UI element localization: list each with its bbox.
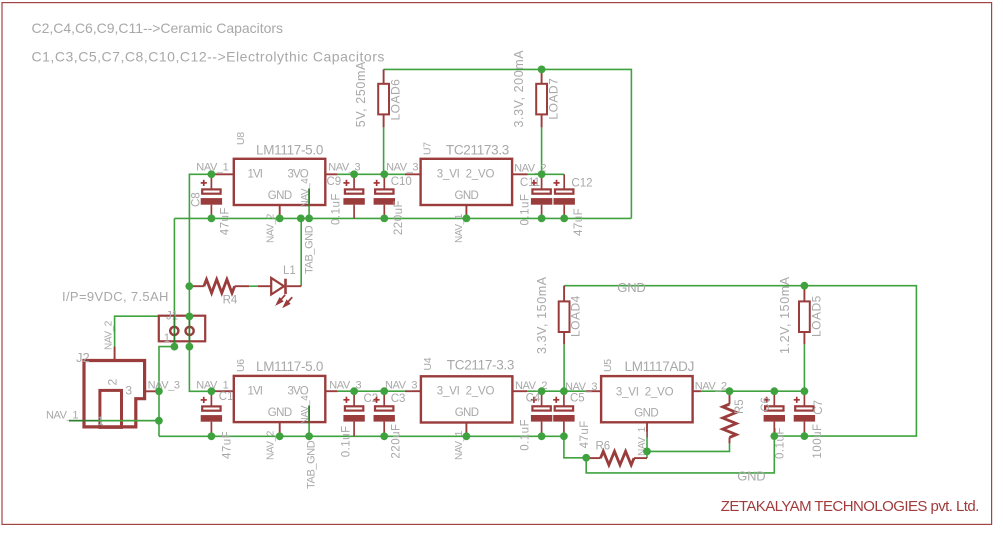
regulator U5 LM1117ADJ box (601, 376, 693, 422)
junction C3 bottom on bus (380, 432, 388, 440)
junction U8 GND on bus (276, 215, 284, 223)
svg-text:47uF: 47uF (579, 420, 591, 448)
junction C9 top (350, 170, 358, 178)
U8 pin 4 TAB segment inside box (308, 189, 310, 207)
svg-text:C9: C9 (327, 176, 342, 188)
svg-text:C6: C6 (760, 397, 772, 412)
capacitor C5 47uF (553, 391, 574, 436)
R4 right lead (235, 285, 250, 287)
LOAD6 bottom lead (383, 114, 385, 127)
junction U4 GND on bus (463, 432, 471, 440)
wire top load GND loop (384, 69, 632, 218)
svg-text:U5: U5 (602, 359, 614, 372)
junction LOAD5 top (801, 282, 809, 290)
wire between R4 and L1 (249, 285, 258, 287)
U8 output pin stub (325, 173, 337, 175)
junction C10 bottom on bus (380, 215, 388, 223)
LED L1 cathode lead (287, 285, 301, 287)
svg-text:C8: C8 (191, 192, 203, 207)
junction C6 top (770, 387, 778, 395)
junction C7 / LOAD5 (801, 387, 809, 395)
junction U7 out / C11 / LOAD7 (538, 170, 546, 178)
svg-text:L1: L1 (283, 265, 296, 277)
svg-text:0.1uF: 0.1uF (520, 419, 532, 451)
J2 inner contact rectangle (100, 390, 122, 427)
svg-text:C11: C11 (520, 177, 540, 189)
junction LOAD7 top (538, 66, 546, 74)
svg-text:47uF: 47uF (573, 208, 585, 236)
svg-text:C1: C1 (219, 391, 234, 403)
wire LOAD5 bottom to node (803, 344, 805, 391)
wire NAV_4 from U6 pin 4 to bottom bus (308, 406, 310, 437)
wire NAV_1 from J1 pin down to U6 input node (189, 347, 211, 392)
J2 pin 2 red stub (114, 347, 116, 362)
R6 left lead (586, 457, 600, 459)
LOAD4 bottom lead (563, 332, 565, 344)
svg-text:3_VI 2_VO: 3_VI 2_VO (437, 386, 495, 398)
svg-text:NAV_2: NAV_2 (104, 320, 115, 350)
junction C6 bottom (770, 432, 778, 440)
svg-text:LOAD6: LOAD6 (389, 79, 403, 121)
wire TAB_GND from LED cathode up to bus (300, 218, 302, 286)
U5 output pin stub (693, 390, 701, 392)
svg-text:J2: J2 (76, 350, 90, 365)
LOAD5 top lead (803, 286, 805, 302)
svg-text:LOAD4: LOAD4 (569, 295, 583, 337)
capacitor C10 220uF (374, 174, 395, 218)
junction C10 / LOAD6 (380, 170, 388, 178)
svg-text:LM1117ADJ: LM1117ADJ (625, 359, 695, 374)
svg-text:GND: GND (268, 407, 292, 419)
wire LOAD4 bottom to node (563, 344, 565, 391)
wire junction jog to R6 right lead (646, 451, 648, 458)
capacitor C3 220uF (374, 391, 395, 436)
R6 right lead (634, 457, 647, 459)
svg-text:GND: GND (617, 280, 645, 295)
capacitor C6 0.1uF (764, 391, 785, 436)
wire GND loop from LOAD4 top around right side (564, 286, 916, 436)
junction R5 top (726, 387, 734, 395)
junction C5 bottom on bus (560, 432, 568, 440)
wire from C5 bottom down to R6 (564, 436, 586, 458)
svg-text:C10: C10 (391, 176, 412, 188)
svg-text:J1: J1 (166, 311, 178, 323)
U4 input pin stub (405, 390, 421, 392)
U8 GND pin stub (279, 205, 281, 218)
J2 pin 3 stub (145, 390, 159, 392)
R5 bottom lead (729, 437, 731, 443)
wire NAV_1 over J2 symbol (98, 420, 159, 422)
junction R4 tap on NAV_1 (185, 282, 193, 290)
R5 top lead (729, 391, 731, 404)
junction R6 left / GND elbow (582, 454, 590, 462)
svg-text:LM1117-5.0: LM1117-5.0 (256, 143, 323, 158)
resistor R6 zigzag (601, 451, 635, 465)
wire bottom GND bus (159, 435, 564, 437)
wire NAV_2 J2 pin 2 to J1 (115, 316, 159, 360)
U7 output pin stub (512, 173, 527, 175)
junction C4 top (538, 387, 546, 395)
capacitor C1 47uF (201, 391, 222, 436)
junction NAV_1 wire end (155, 417, 163, 425)
wire NAV_3 U6 output to U4 input (337, 390, 405, 392)
op-amp/regulator U8 LM1117-5.0 box (234, 159, 325, 205)
svg-text:NAV_3: NAV_3 (565, 381, 597, 393)
svg-text:TC2117-3.3: TC2117-3.3 (447, 358, 514, 373)
svg-text:NAV_3: NAV_3 (386, 162, 418, 174)
svg-text:NAV_3: NAV_3 (385, 380, 417, 392)
connector J1 box (159, 316, 205, 342)
junction C12 bottom on bus (560, 215, 568, 223)
svg-text:2: 2 (106, 379, 120, 386)
capacitor C2 0.1uF (343, 391, 364, 436)
junction C8 bottom on bus (208, 215, 216, 223)
svg-text:47uF: 47uF (222, 431, 234, 459)
LOAD5 bottom lead (803, 332, 805, 344)
junction U6 GND on bus (276, 432, 284, 440)
svg-text:NAV_2: NAV_2 (266, 430, 277, 460)
LED L1 anode lead (258, 285, 271, 287)
svg-text:ZETAKALYAM TECHNOLOGIES pvt. L: ZETAKALYAM TECHNOLOGIES pvt. Ltd. (721, 498, 979, 515)
U7 input pin stub (405, 173, 421, 175)
resistor R5 zigzag (723, 404, 737, 437)
LOAD7 bottom lead (541, 114, 543, 127)
svg-text:3: 3 (125, 384, 132, 398)
svg-text:GND: GND (268, 190, 292, 202)
junction NAV_4 on bus (305, 215, 313, 223)
wire GND elbow left of J1 down to bottom bus (159, 347, 174, 437)
svg-text:1VI: 1VI (248, 386, 263, 398)
svg-text:3_VI 2_VO: 3_VI 2_VO (437, 169, 495, 181)
U7 GND pin stub (465, 205, 467, 218)
capacitor C11 0.1uF (531, 174, 552, 218)
LED L1 cathode bar (284, 279, 287, 294)
svg-text:1.2V, 150mA: 1.2V, 150mA (778, 276, 792, 354)
svg-text:C1,C3,C5,C7,C8,C10,C12-->Elect: C1,C3,C5,C7,C8,C10,C12-->Electrolythic C… (32, 49, 385, 65)
svg-text:R6: R6 (596, 441, 611, 453)
svg-text:5V, 250mA: 5V, 250mA (354, 61, 368, 127)
svg-text:0.1uF: 0.1uF (341, 425, 353, 457)
wire GND elbow from R6 to C6 bottom (586, 436, 774, 473)
svg-text:U7: U7 (422, 142, 434, 155)
capacitor C4 0.1uF (531, 391, 552, 436)
U4 output pin stub (512, 390, 527, 392)
svg-text:GND: GND (455, 407, 479, 419)
svg-text:0.1uF: 0.1uF (519, 194, 531, 226)
wire U5 GND pin to junction (646, 438, 648, 452)
junction C5 / LOAD4 (560, 387, 568, 395)
svg-text:NAV_2: NAV_2 (695, 380, 727, 392)
svg-text:I/P=9VDC, 7.5AH: I/P=9VDC, 7.5AH (62, 289, 169, 304)
wire NAV_1 from U8 input down to J1 pin 2 (189, 174, 211, 346)
resistor LOAD7 box (536, 84, 547, 115)
capacitor C12 47uF (554, 174, 575, 218)
junction U6 input / C1 (208, 387, 216, 395)
wire LOAD7 bottom to NAV_2 (541, 127, 543, 174)
svg-text:LM1117-5.0: LM1117-5.0 (256, 359, 323, 374)
J1 pin circle 2 (186, 327, 194, 335)
svg-text:1VI: 1VI (248, 169, 263, 181)
junction C1 bottom on bus (208, 432, 216, 440)
regulator U6 LM1117-5.0 box (234, 376, 325, 422)
svg-text:NAV_3: NAV_3 (148, 380, 180, 392)
svg-text:C4: C4 (526, 393, 541, 405)
resistor LOAD5 box (799, 301, 810, 332)
capacitor C8 47uF electrolytic (201, 174, 222, 218)
svg-text:LOAD7: LOAD7 (546, 78, 560, 120)
J2 pin 1 pin line (69, 420, 98, 422)
junction below J1 pin 2 (186, 343, 194, 351)
svg-text:NAV_2: NAV_2 (266, 213, 277, 243)
U4 GND pin stub (465, 423, 467, 437)
junction TAB_GND on bus (297, 215, 305, 223)
J1 pin 2 vertical pin line (188, 316, 190, 347)
wire NAV_3 U8 output to U7 input (337, 173, 405, 175)
svg-text:1: 1 (164, 333, 170, 345)
svg-text:220uF: 220uF (390, 423, 402, 458)
junction C2 top (350, 387, 358, 395)
svg-text:GND: GND (634, 407, 658, 419)
svg-text:U8: U8 (235, 132, 247, 145)
resistor R4 zigzag (204, 279, 235, 293)
LED L1 emission arrows (277, 295, 292, 306)
svg-text:0.1uF: 0.1uF (775, 427, 787, 459)
junction C3 top (380, 387, 388, 395)
svg-text:100uF: 100uF (812, 423, 824, 458)
svg-text:R4: R4 (223, 294, 238, 306)
svg-text:NAV_1: NAV_1 (46, 409, 78, 421)
svg-text:3_VI 2_VO: 3_VI 2_VO (616, 387, 674, 399)
svg-text:0.1uF: 0.1uF (330, 193, 342, 225)
junction NAV_4 on bottom bus (305, 432, 313, 440)
U6 pin 4 TAB segment inside box (308, 406, 310, 424)
R4 left lead (189, 285, 204, 287)
svg-text:TC21173.3: TC21173.3 (446, 143, 509, 158)
svg-text:U4: U4 (422, 357, 434, 370)
capacitor C9 0.1uF (343, 174, 364, 218)
LOAD6 top lead (383, 69, 385, 83)
U6 output pin stub (325, 390, 337, 392)
svg-text:C3: C3 (391, 393, 406, 405)
LOAD4 top lead (563, 286, 565, 302)
capacitor C7 100uF (794, 391, 815, 436)
svg-text:R5: R5 (734, 399, 746, 414)
junction NAV_1 at J1 (186, 313, 194, 321)
svg-text:TAB_GND: TAB_GND (306, 440, 318, 489)
svg-text:220uF: 220uF (393, 200, 405, 235)
junction U7 GND on bus (463, 215, 471, 223)
wire top GND bus (174, 217, 631, 219)
J1 pin 1 vertical pin line (173, 316, 175, 347)
connector J2 power jack outline (84, 361, 145, 427)
wire LOAD6 bottom to NAV_3 (383, 127, 385, 174)
wire junction to R5 bottom (647, 443, 730, 451)
regulator U7 TC21173.3 box (421, 159, 512, 205)
svg-text:GND: GND (737, 469, 765, 484)
svg-text:LOAD5: LOAD5 (810, 295, 824, 337)
svg-text:GND: GND (455, 190, 479, 202)
junction U5 GND / R6 / R5 (643, 448, 651, 456)
U6 GND pin stub (279, 422, 281, 436)
junction below J1 pin 1 (171, 343, 179, 351)
wire NAV_2 U4 output to U5 input (527, 390, 586, 392)
U5 GND pin stub (646, 422, 648, 437)
wire NAV_2 U5 output to R5 C6 C7 (701, 390, 805, 392)
junction NAV_3 at J2 (155, 387, 163, 395)
svg-text:C2,C4,C6,C9,C11-->Ceramic Capa: C2,C4,C6,C9,C11-->Ceramic Capacitors (32, 20, 284, 36)
junction C7 bottom (801, 432, 809, 440)
svg-text:C12: C12 (571, 178, 592, 190)
LOAD7 top lead (541, 69, 543, 83)
svg-text:TAB_GND: TAB_GND (304, 225, 316, 274)
svg-text:C7: C7 (813, 400, 825, 415)
U5 input pin stub (586, 390, 601, 392)
U6 input pin stub (211, 390, 233, 392)
regulator U4 TC2117-3.3 box (421, 376, 513, 422)
junction C11 bottom on bus (538, 215, 546, 223)
wire GND bus down through J1 pin 1 (173, 218, 175, 346)
LED L1 triangle (271, 278, 284, 295)
svg-text:3.3V, 150mA: 3.3V, 150mA (535, 276, 549, 354)
svg-text:3.3V, 200mA: 3.3V, 200mA (512, 50, 526, 128)
resistor LOAD6 box (378, 84, 389, 115)
J1 pin circle 1 (170, 327, 178, 335)
wire NAV_1 from border to J2 pin 1 (69, 420, 159, 422)
svg-text:U6: U6 (235, 359, 247, 372)
svg-text:47uF: 47uF (219, 207, 231, 235)
junction C4 bottom on bus (538, 432, 546, 440)
svg-text:C5: C5 (570, 393, 585, 405)
wire NAV_4 from U8 pin 4 to bus (308, 189, 310, 219)
resistor LOAD4 box (559, 301, 570, 332)
junction U8 input / C8 (208, 170, 216, 178)
U8 input pin stub (211, 173, 233, 175)
wire NAV_2 U7 output to C11 C12 (528, 173, 565, 175)
